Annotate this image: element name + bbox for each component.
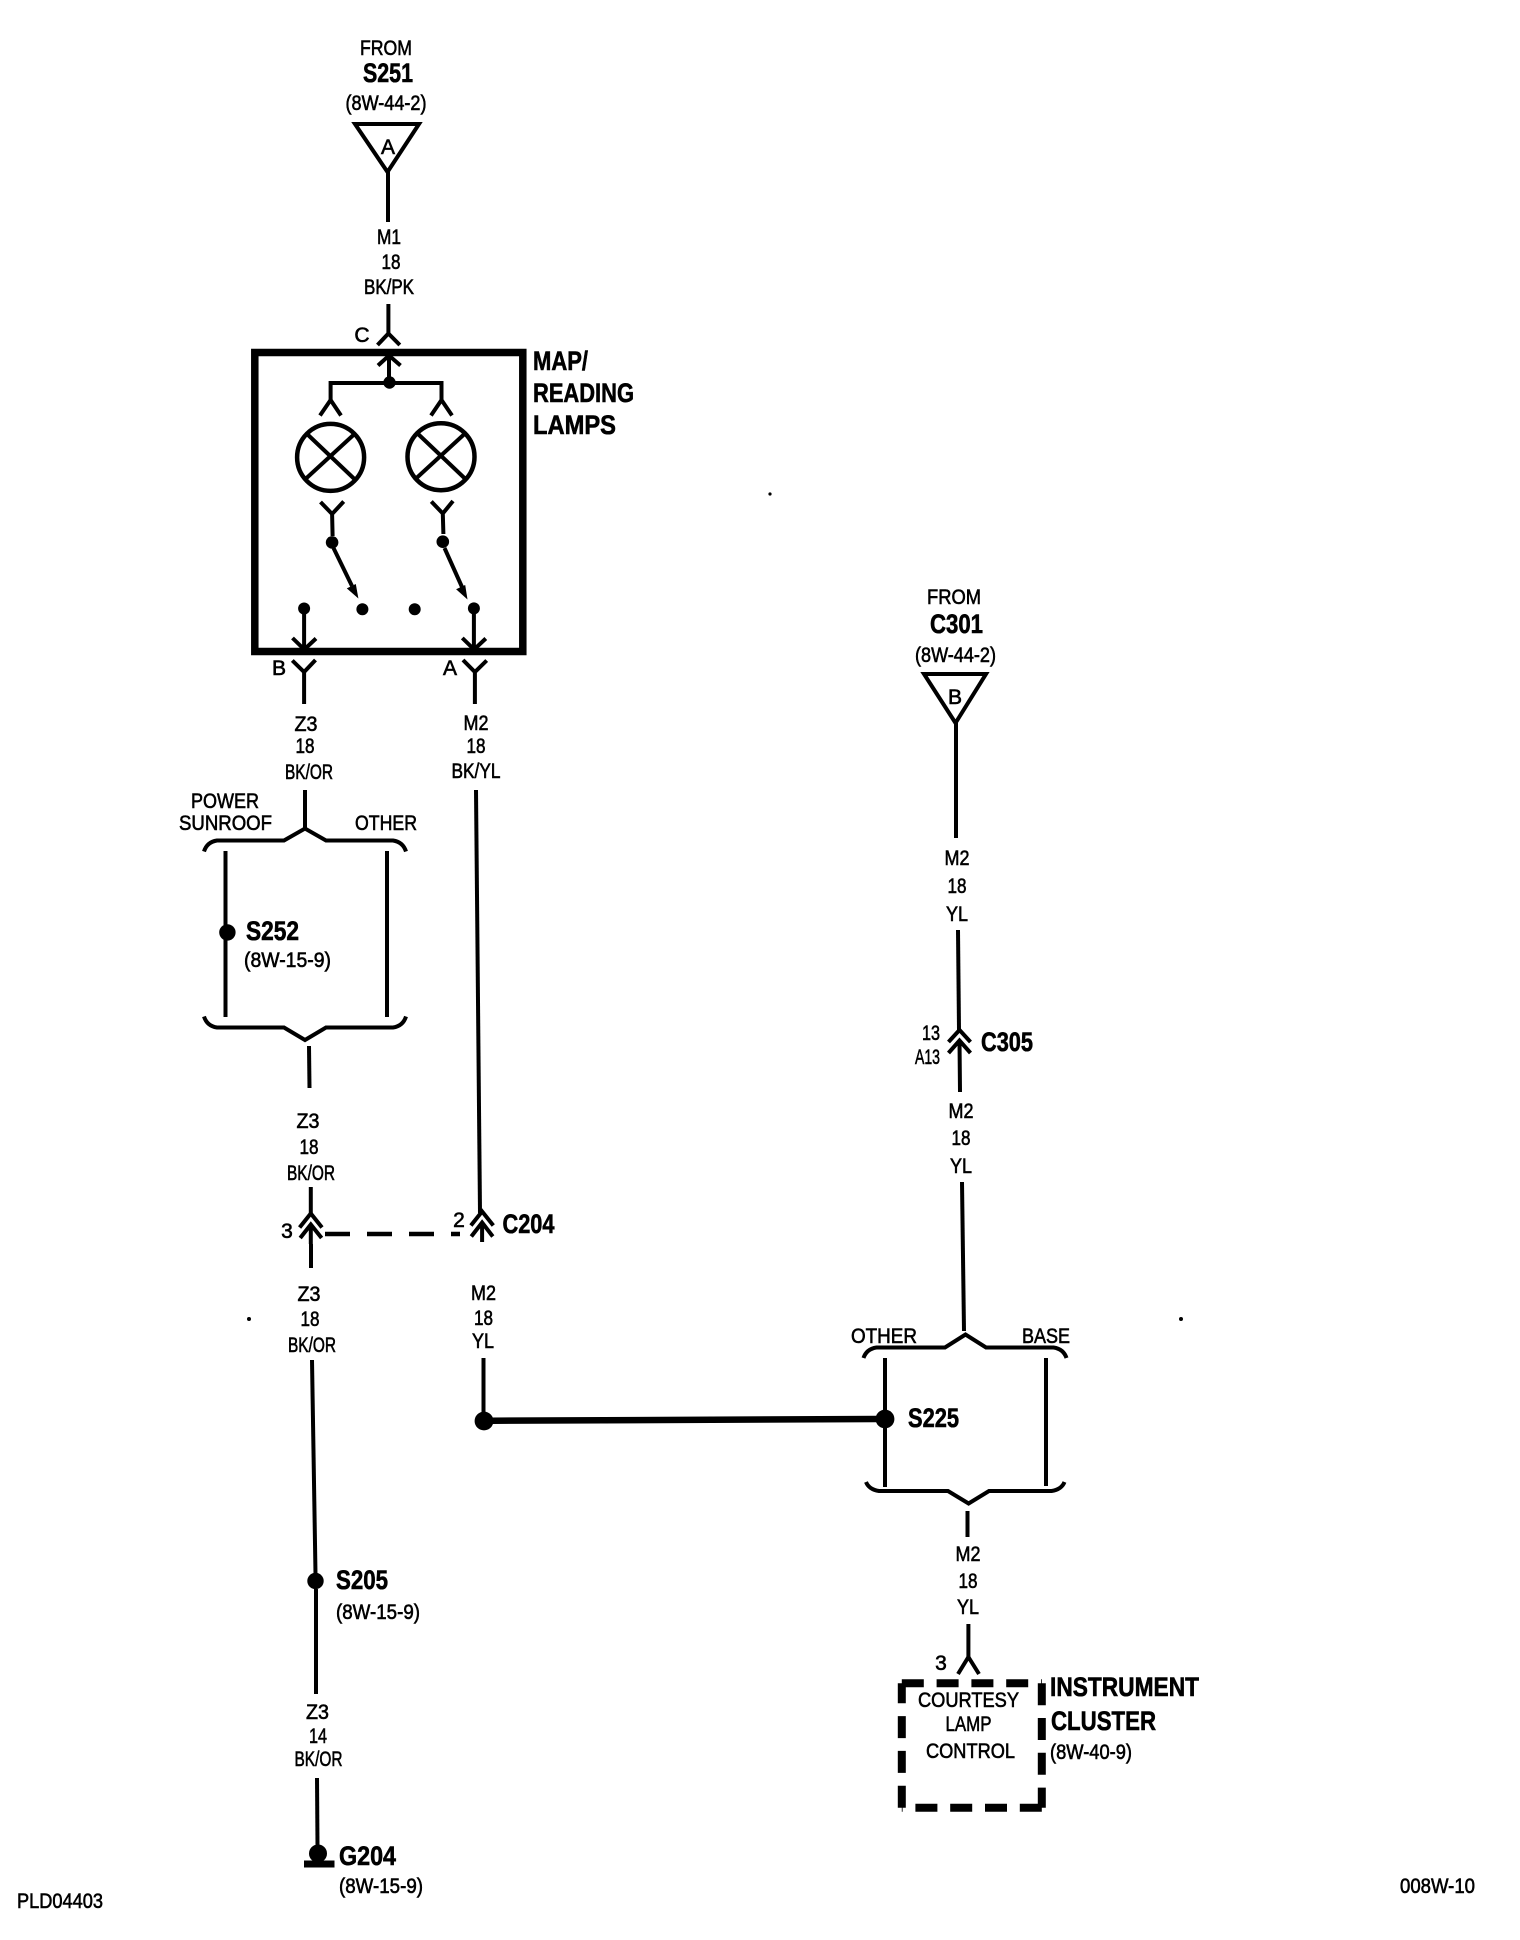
wire to ground G204 xyxy=(315,1778,320,1846)
svg-text:OTHER: OTHER xyxy=(355,812,417,835)
svg-text:G204: G204 xyxy=(339,1841,396,1871)
wire power sunroof branch xyxy=(224,851,228,1017)
svg-text:C: C xyxy=(354,324,369,347)
svg-text:BASE: BASE xyxy=(1022,1325,1070,1348)
switch left pivot and arm xyxy=(326,536,359,598)
connector fork left lamp feed xyxy=(320,400,341,416)
svg-text:Z3: Z3 xyxy=(306,1701,329,1724)
brace bottom S252 group xyxy=(204,1017,406,1041)
svg-text:YL: YL xyxy=(950,1155,972,1178)
dashed wire between C204 halves xyxy=(325,1232,460,1237)
junction dot inside lamp box xyxy=(383,376,395,388)
svg-text:008W-10: 008W-10 xyxy=(1400,1875,1475,1898)
svg-text:18: 18 xyxy=(300,1136,319,1159)
svg-text:B: B xyxy=(272,657,286,680)
svg-text:BK/YL: BK/YL xyxy=(452,760,501,783)
switch right pivot and arm xyxy=(437,535,468,599)
svg-text:INSTRUMENT: INSTRUMENT xyxy=(1050,1672,1199,1702)
wire other branch S225 xyxy=(883,1358,887,1487)
wire M2 from triangle B xyxy=(954,723,958,838)
label INSTRUMENT CLUSTER (8W-40-9) xyxy=(1050,1672,1199,1764)
off-page connector triangle A from S251 xyxy=(355,124,419,172)
svg-text:FROM: FROM xyxy=(927,586,981,609)
splice S225 dot xyxy=(876,1410,895,1429)
svg-text:S252: S252 xyxy=(246,916,299,946)
off-page connector triangle B from C301 xyxy=(924,674,986,723)
svg-text:A: A xyxy=(381,136,395,159)
junction dot M2 xyxy=(475,1412,494,1431)
label BASE xyxy=(1022,1325,1070,1348)
svg-text:CONTROL: CONTROL xyxy=(926,1740,1015,1763)
svg-text:M2: M2 xyxy=(956,1543,981,1566)
ground G204 symbol xyxy=(304,1845,335,1868)
connector fork instrument cluster pin 3 xyxy=(958,1657,979,1674)
svg-text:18: 18 xyxy=(467,735,486,758)
svg-text:BK/OR: BK/OR xyxy=(285,761,333,784)
svg-text:18: 18 xyxy=(296,735,315,758)
svg-text:S205: S205 xyxy=(336,1565,388,1595)
svg-text:18: 18 xyxy=(474,1307,493,1330)
wire label M2 18 BK/YL xyxy=(452,712,501,783)
svg-text:(8W-44-2): (8W-44-2) xyxy=(915,644,996,667)
svg-text:18: 18 xyxy=(948,875,967,898)
brace top S225 group xyxy=(864,1335,1067,1359)
lamp left (map/reading lamp bulb) xyxy=(297,424,364,491)
svg-text:18: 18 xyxy=(952,1127,971,1150)
svg-text:LAMP: LAMP xyxy=(946,1713,992,1736)
svg-text:A13: A13 xyxy=(915,1046,940,1069)
svg-text:C204: C204 xyxy=(503,1209,555,1239)
svg-text:13: 13 xyxy=(922,1022,940,1045)
wire into connector C xyxy=(386,304,390,334)
svg-text:(8W-40-9): (8W-40-9) xyxy=(1050,1741,1132,1764)
label G204 (8W-15-9) xyxy=(339,1841,423,1898)
wire M1 from triangle A xyxy=(386,172,390,222)
label S225 xyxy=(908,1403,959,1433)
wire label M2 18 YL (first right) xyxy=(945,847,970,926)
connector C305 chevrons xyxy=(949,1030,971,1092)
svg-text:A: A xyxy=(443,657,457,680)
label COURTESY LAMP CONTROL xyxy=(918,1689,1019,1763)
svg-text:M2: M2 xyxy=(464,712,489,735)
wire label M2 18 YL (at C204) xyxy=(471,1282,496,1353)
svg-text:OTHER: OTHER xyxy=(851,1325,917,1348)
label C204 xyxy=(503,1209,555,1239)
connector fork right lamp feed xyxy=(431,400,452,416)
label S252 (8W-15-9) xyxy=(244,916,331,972)
svg-text:READING: READING xyxy=(533,378,634,408)
svg-text:Z3: Z3 xyxy=(297,1110,320,1133)
svg-text:CLUSTER: CLUSTER xyxy=(1051,1706,1156,1736)
wire Z3 to sunroof brace xyxy=(303,790,307,829)
svg-text:FROM: FROM xyxy=(360,37,412,60)
svg-text:C305: C305 xyxy=(981,1027,1033,1057)
wire label M2 18 YL (second right) xyxy=(949,1100,974,1178)
connector fork below right lamp xyxy=(431,501,453,534)
wire M2 down to C204 xyxy=(476,790,480,1213)
svg-text:M2: M2 xyxy=(945,847,970,870)
svg-text:(8W-44-2): (8W-44-2) xyxy=(346,92,427,115)
wire M2 to junction xyxy=(482,1358,486,1413)
svg-text:COURTESY: COURTESY xyxy=(918,1689,1019,1712)
svg-text:3: 3 xyxy=(281,1220,293,1243)
wire label M1 18 BK/PK xyxy=(364,226,414,299)
svg-text:M2: M2 xyxy=(471,1282,496,1305)
svg-text:B: B xyxy=(948,686,962,709)
svg-text:14: 14 xyxy=(309,1725,327,1748)
splice S252 dot xyxy=(219,924,235,940)
switch left throw dots xyxy=(298,603,368,616)
svg-text:YL: YL xyxy=(472,1330,494,1353)
svg-text:S251: S251 xyxy=(363,58,413,88)
wire below S225 group xyxy=(966,1511,970,1537)
connector C male half arrow xyxy=(378,356,401,379)
wire label Z3 14 BK/OR xyxy=(295,1701,343,1771)
instrument cluster dashed box xyxy=(902,1683,1042,1808)
svg-text:SUNROOF: SUNROOF xyxy=(179,812,272,835)
wire label M2 18 YL (third right) xyxy=(956,1543,981,1619)
wire lamp feed branch xyxy=(331,383,442,400)
brace bottom S225 group xyxy=(866,1482,1065,1504)
bus wire junction to S225 xyxy=(492,1419,877,1421)
svg-text:18: 18 xyxy=(301,1308,320,1331)
wire label Z3 18 BK/OR (second) xyxy=(287,1110,335,1185)
svg-text:M1: M1 xyxy=(377,226,401,249)
label FROM C301 (8W-44-2) xyxy=(915,586,996,667)
label pins 13 A13 xyxy=(915,1022,940,1069)
svg-text:18: 18 xyxy=(959,1570,978,1593)
wire into C204 pin 3 xyxy=(309,1187,313,1214)
svg-text:Z3: Z3 xyxy=(298,1283,321,1306)
svg-text:2: 2 xyxy=(453,1209,465,1232)
svg-text:PLD04403: PLD04403 xyxy=(17,1890,103,1913)
svg-text:POWER: POWER xyxy=(191,790,259,813)
svg-text:LAMPS: LAMPS xyxy=(533,410,616,440)
splice S205 dot xyxy=(307,1573,323,1589)
wire label Z3 18 BK/OR (first) xyxy=(285,713,333,784)
svg-text:3: 3 xyxy=(935,1652,947,1675)
wire other branch xyxy=(385,851,389,1017)
lamp right (map/reading lamp bulb) xyxy=(408,423,475,490)
scan speck marks xyxy=(247,492,1183,1321)
label 008W-10 xyxy=(1400,1875,1475,1898)
connector A fork xyxy=(463,660,487,704)
wire below S205 xyxy=(314,1589,318,1694)
svg-text:BK/OR: BK/OR xyxy=(295,1748,343,1771)
wire right lamp output with down arrow xyxy=(462,614,486,650)
wire below bottom brace xyxy=(307,1046,312,1088)
svg-text:C301: C301 xyxy=(930,609,983,639)
connector C204 pin 2 chevrons xyxy=(471,1212,493,1243)
connector B fork xyxy=(292,660,315,704)
label MAP/ READING LAMPS xyxy=(533,346,634,440)
wire down to S225 brace xyxy=(962,1182,964,1331)
svg-text:YL: YL xyxy=(957,1596,979,1619)
svg-text:M2: M2 xyxy=(949,1100,974,1123)
label S205 (8W-15-9) xyxy=(336,1565,420,1624)
wire base branch S225 xyxy=(1044,1358,1048,1486)
label PLD04403 xyxy=(17,1890,103,1913)
label POWER SUNROOF xyxy=(179,790,272,835)
label A xyxy=(443,657,457,680)
label C xyxy=(354,324,369,347)
svg-text:18: 18 xyxy=(382,251,401,274)
switch right throw dots xyxy=(409,602,480,615)
label FROM S251 (8W-44-2) xyxy=(346,37,427,115)
label OTHER (left) xyxy=(355,812,417,835)
wire into instrument cluster xyxy=(966,1624,970,1657)
map/reading lamps box xyxy=(255,353,523,652)
label pin 3 xyxy=(281,1220,293,1243)
svg-text:(8W-15-9): (8W-15-9) xyxy=(336,1601,420,1624)
svg-text:BK/PK: BK/PK xyxy=(364,276,414,299)
svg-text:MAP/: MAP/ xyxy=(533,346,588,376)
label pin 3 (cluster) xyxy=(935,1652,947,1675)
svg-text:BK/OR: BK/OR xyxy=(288,1334,336,1357)
label B xyxy=(272,657,286,680)
svg-text:BK/OR: BK/OR xyxy=(287,1162,335,1185)
connector fork below left lamp xyxy=(321,502,344,537)
svg-text:YL: YL xyxy=(946,903,968,926)
svg-text:(8W-15-9): (8W-15-9) xyxy=(244,949,331,972)
svg-text:(8W-15-9): (8W-15-9) xyxy=(339,1875,423,1898)
label pin 2 xyxy=(453,1209,465,1232)
brace top S252 group xyxy=(204,829,406,852)
label OTHER (right) xyxy=(851,1325,917,1348)
label C305 xyxy=(981,1027,1033,1057)
wire into C305 xyxy=(958,930,959,1030)
svg-text:S225: S225 xyxy=(908,1403,959,1433)
connector C204 pin 3 chevrons xyxy=(300,1214,322,1245)
wire long Z3 run to S205 xyxy=(312,1360,316,1574)
connector C female fork xyxy=(378,334,400,346)
wire label Z3 18 BK/OR (third) xyxy=(288,1283,336,1357)
svg-text:Z3: Z3 xyxy=(295,713,318,736)
wire below C204 pin 3 xyxy=(309,1244,313,1268)
wire left lamp output with down arrow xyxy=(293,614,317,650)
